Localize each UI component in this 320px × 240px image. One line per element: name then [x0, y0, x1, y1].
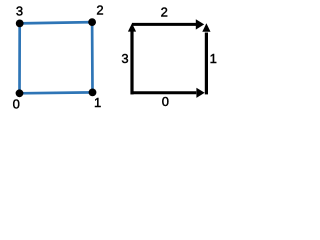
node 3 (top-left vertex)	[16, 20, 24, 28]
node 1 (bottom-right vertex)	[89, 89, 97, 97]
edge 0: bottom side, arrow right	[131, 91, 197, 94]
svg-text:1: 1	[94, 95, 101, 110]
svg-text:0: 0	[13, 97, 20, 111]
svg-text:3: 3	[16, 4, 23, 19]
svg-text:2: 2	[161, 4, 168, 19]
edge 3: left side, arrow up	[130, 31, 133, 94]
edge 1: right side, arrow up	[205, 33, 208, 95]
svg-text:2: 2	[96, 2, 103, 17]
svg-text:0: 0	[162, 94, 169, 109]
wire	[20, 22, 93, 93]
node 2 (top-right vertex)	[88, 18, 96, 26]
edge 2: top side, arrow right	[132, 23, 197, 26]
svg-text:3: 3	[121, 51, 128, 66]
node 0 (bottom-left vertex)	[16, 89, 24, 97]
svg-text:1: 1	[210, 51, 217, 66]
